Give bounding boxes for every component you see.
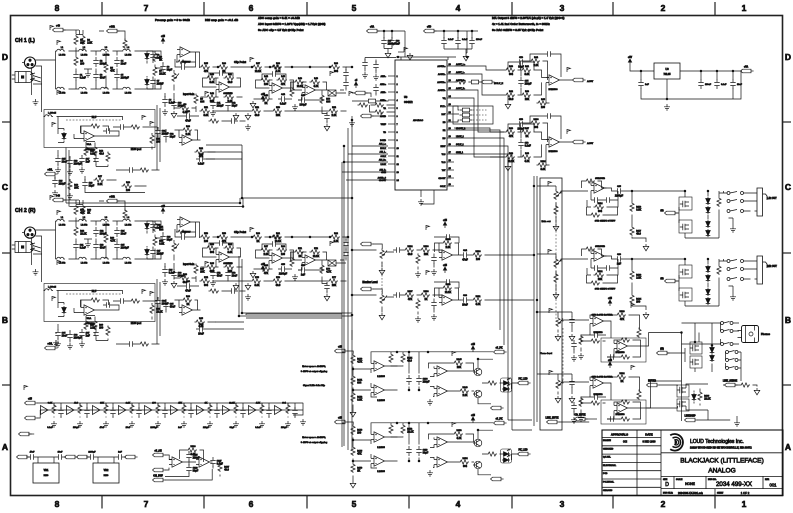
- resistor R106: [472, 251, 483, 261]
- svg-text:So DAC 0dBFS = 3.35 Vpk @Clip: So DAC 0dBFS = 3.35 Vpk @Clip Point: [492, 28, 543, 32]
- op-amp U14: [179, 305, 196, 315]
- capacitor C115: [162, 407, 167, 417]
- power flag +15: [471, 415, 476, 423]
- diode D2: [145, 78, 150, 86]
- svg-text:33pF: 33pF: [170, 135, 176, 138]
- svg-text:1: 1: [742, 3, 747, 13]
- svg-text:2.2K: 2.2K: [445, 246, 450, 249]
- svg-text:22.1K: 22.1K: [445, 291, 452, 294]
- resistor R131: [620, 355, 631, 359]
- ground (analog): [569, 396, 575, 403]
- capacitor C58: [228, 288, 238, 293]
- resistor R13: [130, 125, 141, 129]
- svg-text:CS4272: CS4272: [404, 101, 413, 104]
- junction: [536, 299, 538, 301]
- capacitor C25: [114, 241, 129, 251]
- resistor R16: [68, 180, 79, 191]
- svg-text:+5A: +5A: [744, 66, 749, 69]
- transistor Q20: [473, 461, 482, 469]
- svg-text:R37: R37: [256, 63, 261, 65]
- ground (analog): [555, 396, 561, 403]
- svg-text:8 DEC 2009: 8 DEC 2009: [642, 440, 656, 443]
- svg-text:2200pF: 2200pF: [121, 246, 130, 249]
- junction: [352, 368, 354, 370]
- capacitor C116: [188, 407, 193, 417]
- connector J33: [518, 379, 531, 385]
- transistor Q10: [690, 345, 699, 351]
- svg-text:10K: 10K: [457, 366, 462, 369]
- resistor R124: [630, 294, 642, 305]
- capacitor C9: [162, 96, 175, 106]
- ground: [292, 274, 298, 280]
- wire: [254, 74, 294, 100]
- junction: [343, 145, 345, 147]
- svg-text:REG: REG: [104, 475, 109, 477]
- svg-text:L2: L2: [83, 217, 86, 219]
- junction: [352, 460, 354, 462]
- svg-text:So ADC clip = 4.5 Vpk @Clip Po: So ADC clip = 4.5 Vpk @Clip Point: [258, 28, 304, 32]
- svg-text:0.1uF: 0.1uF: [280, 103, 287, 106]
- ground (analog): [379, 268, 385, 275]
- ground: [362, 72, 368, 78]
- resistor R1: [74, 35, 85, 46]
- svg-text:1uF: 1uF: [396, 42, 401, 45]
- svg-text:SIZE: SIZE: [663, 479, 668, 481]
- capacitor C98: [614, 254, 624, 265]
- svg-text:SUB/SUB: SUB/SUB: [595, 178, 605, 180]
- XLR connector J1: [22, 57, 36, 68]
- wire: [454, 81, 469, 83]
- svg-text:C55: C55: [281, 264, 286, 266]
- svg-text:R/R OUT: R/R OUT: [767, 265, 777, 268]
- wire: [200, 66, 347, 68]
- connector J49: [19, 432, 32, 436]
- svg-text:LINE/AMP: LINE/AMP: [685, 415, 696, 418]
- wire: [113, 300, 158, 302]
- resistor R84: [150, 304, 163, 315]
- resistor R57: [177, 230, 188, 234]
- resistor R11: [84, 146, 96, 157]
- wire: [201, 243, 243, 282]
- svg-text:MCLK: MCLK: [380, 148, 386, 150]
- wire: [165, 93, 199, 116]
- capacitor C5: [114, 71, 129, 81]
- op-amp U16: [546, 137, 563, 147]
- svg-text:2200pF: 2200pF: [74, 336, 83, 339]
- wire: [99, 31, 125, 41]
- svg-text:49.9: 49.9: [407, 359, 412, 362]
- wire: [322, 277, 327, 294]
- wire: [76, 200, 83, 221]
- svg-text:33pF: 33pF: [232, 104, 238, 107]
- junction: [694, 341, 696, 343]
- svg-text:22.1K: 22.1K: [313, 255, 320, 258]
- inductor L10: [56, 217, 66, 227]
- resistor R9: [194, 94, 205, 105]
- connector J8: [53, 195, 66, 202]
- svg-text:+5_AN: +5_AN: [154, 450, 162, 453]
- wire: [454, 98, 504, 157]
- test point TP1: [50, 25, 53, 30]
- IC U3 right pin names: [437, 65, 446, 188]
- svg-text:4: 4: [456, 499, 461, 509]
- wire: [37, 403, 303, 418]
- resistor R14: [139, 168, 150, 172]
- wire: [377, 351, 493, 353]
- svg-text:5: 5: [352, 3, 357, 13]
- svg-text:+5_PK: +5_PK: [495, 419, 502, 421]
- ground: [33, 99, 39, 105]
- resistor R118: [717, 197, 721, 208]
- svg-text:DATE: DATE: [645, 432, 653, 436]
- resistor R155: [487, 452, 498, 456]
- wire: [116, 169, 160, 171]
- connector J25: [657, 349, 670, 355]
- connector J46: [153, 450, 166, 457]
- svg-text:CD_MUTE: CD_MUTE: [574, 415, 586, 417]
- wire: [246, 314, 342, 318]
- wire: [200, 110, 347, 112]
- svg-text:7: 7: [144, 3, 149, 13]
- svg-text:SCLK_1: SCLK_1: [456, 144, 465, 146]
- ground: [259, 421, 265, 427]
- capacitor C63: [196, 154, 206, 165]
- block DAC filter A: [490, 51, 594, 109]
- junction: [291, 66, 293, 68]
- svg-text:TST: TST: [442, 170, 447, 172]
- svg-text:3: 3: [560, 3, 565, 13]
- svg-text:2.2K: 2.2K: [87, 41, 92, 44]
- wire: [537, 374, 589, 395]
- wire: [490, 54, 573, 103]
- XLR connector J6: [22, 227, 36, 238]
- wire: [175, 130, 201, 140]
- title block frame: [602, 430, 783, 496]
- svg-text:POLITICAL: POLITICAL: [603, 481, 615, 484]
- capacitor C31: [183, 281, 193, 292]
- svg-text:+48R: +48R: [109, 26, 115, 29]
- svg-text:R82: R82: [199, 148, 204, 150]
- junction: [457, 30, 459, 32]
- connector J21: [665, 211, 678, 215]
- capacitor C49: [343, 79, 348, 89]
- resistor R101: [537, 161, 548, 171]
- wire: [729, 218, 734, 226]
- resistor R161: [182, 404, 186, 415]
- connector J3: [53, 25, 66, 32]
- svg-text:47uF: 47uF: [100, 246, 106, 249]
- cell wires: [184, 403, 191, 418]
- svg-text:1uF: 1uF: [86, 334, 91, 337]
- svg-text:B: B: [785, 315, 791, 325]
- ground: [233, 421, 239, 427]
- resistor R29: [84, 320, 96, 331]
- wire: [56, 88, 148, 90]
- transistor Q8: [680, 292, 689, 298]
- svg-text:LR Filt: LR Filt: [125, 92, 132, 95]
- svg-text:10uF: 10uF: [62, 160, 68, 163]
- jack contact: [30, 243, 35, 250]
- wire: [507, 95, 509, 102]
- op-amp U6: [302, 85, 319, 95]
- junction: [707, 190, 709, 192]
- resistor R71: [294, 248, 305, 258]
- resistor R70: [290, 257, 294, 268]
- resistor R20: [81, 205, 92, 216]
- analog switch U12: [328, 260, 336, 266]
- svg-text:10uF: 10uF: [126, 427, 132, 429]
- svg-text:R103: R103: [424, 246, 430, 248]
- resistor R100: [530, 119, 541, 129]
- resistor R135: [579, 397, 583, 408]
- op-amp U25: [371, 361, 388, 371]
- connector J47: [153, 468, 166, 472]
- resistor R150: [351, 463, 363, 474]
- wire: [342, 146, 388, 180]
- svg-text:AOUT: AOUT: [587, 80, 594, 83]
- wire: [507, 157, 509, 164]
- wire: [155, 232, 163, 245]
- svg-text:49.9: 49.9: [509, 98, 514, 101]
- wire: [28, 433, 34, 435]
- capacitor C16: [67, 157, 82, 167]
- block DAC filter B: [490, 113, 594, 171]
- svg-text:Meter span = -20dBFS,: Meter span = -20dBFS,: [302, 365, 326, 368]
- resistor R134: [590, 401, 601, 405]
- svg-text:R48: R48: [298, 77, 303, 80]
- capacitor C106: [607, 416, 617, 421]
- resistor R148: [351, 425, 363, 436]
- svg-text:VR1: VR1: [44, 469, 49, 472]
- resistor R151: [389, 424, 393, 435]
- contact K11: [726, 359, 729, 362]
- resistor R166: [187, 446, 198, 456]
- block 5V regulator: [628, 57, 680, 79]
- svg-text:L3: L3: [105, 217, 108, 219]
- connector J38: [491, 477, 504, 481]
- op-amp U24: [614, 403, 631, 413]
- resistor R92: [505, 91, 516, 101]
- svg-text:2200pF: 2200pF: [88, 452, 96, 454]
- svg-text:R17: R17: [98, 176, 103, 178]
- wire: [157, 279, 160, 344]
- svg-text:R85: R85: [199, 318, 204, 320]
- fet box Q15: [677, 385, 689, 397]
- svg-text:49.9: 49.9: [276, 284, 281, 287]
- svg-text:10uF: 10uF: [462, 304, 468, 307]
- op-amp U17: [439, 250, 456, 260]
- capacitor C6: [150, 51, 161, 61]
- wire: [58, 150, 82, 169]
- svg-text:R145: R145: [457, 358, 463, 361]
- op-amp U20: [591, 251, 608, 261]
- resistor R5: [104, 63, 115, 74]
- resistor R65: [206, 263, 217, 273]
- svg-text:8: 8: [397, 132, 399, 134]
- capacitor C2: [93, 57, 107, 67]
- svg-text:R38: R38: [276, 63, 281, 65]
- svg-text:LINE_MUTE: LINE_MUTE: [545, 418, 558, 420]
- connector J44: [77, 455, 90, 459]
- resistor R144: [401, 353, 413, 364]
- svg-text:Phones: Phones: [761, 333, 771, 336]
- diode D11: [706, 265, 711, 273]
- svg-text:SHEET: SHEET: [717, 493, 724, 495]
- diode D16: [710, 354, 715, 362]
- wire: [56, 50, 148, 52]
- ground (analog): [379, 313, 385, 320]
- svg-text:11: 11: [397, 156, 400, 158]
- ground (analog): [171, 111, 177, 118]
- resistor R128: [590, 339, 601, 343]
- inductor L17: [122, 257, 132, 264]
- svg-text:R100: R100: [534, 119, 540, 121]
- resistor R46: [260, 94, 271, 105]
- resistor R37: [252, 63, 263, 73]
- capacitor C96: [591, 265, 601, 270]
- svg-text:LR Filt: LR Filt: [103, 262, 110, 265]
- svg-text:3.3K: 3.3K: [540, 168, 545, 171]
- inductor L6: [78, 87, 88, 94]
- svg-text:LR Filt: LR Filt: [81, 92, 88, 95]
- resistor R15: [106, 152, 110, 163]
- svg-text:10: 10: [397, 148, 400, 150]
- svg-text:49.9: 49.9: [408, 253, 413, 256]
- phones jack J26: [738, 326, 771, 343]
- svg-text:D: D: [665, 482, 669, 488]
- diode D7: [706, 197, 711, 205]
- resistor R162: [208, 404, 212, 415]
- block meter driver 1: [335, 344, 531, 417]
- cell wires: [80, 403, 87, 418]
- svg-text:100: 100: [264, 83, 269, 86]
- wire: [352, 85, 395, 117]
- junction: [631, 190, 633, 192]
- svg-text:VD: VD: [383, 132, 386, 134]
- test point TP27: [549, 308, 552, 313]
- svg-text:33pF: 33pF: [423, 451, 429, 454]
- svg-text:33pF: 33pF: [518, 66, 524, 69]
- svg-text:M1: M1: [443, 130, 447, 132]
- svg-text:NJM4556: NJM4556: [593, 331, 603, 334]
- svg-text:8: 8: [55, 3, 60, 13]
- wire: [195, 322, 216, 329]
- resistor R44: [260, 75, 271, 86]
- svg-text:R111: R111: [476, 296, 482, 298]
- svg-text:22.1K: 22.1K: [156, 310, 163, 313]
- junction: [347, 236, 349, 238]
- svg-text:10uF: 10uF: [121, 62, 127, 65]
- svg-text:22.1K: 22.1K: [159, 72, 166, 75]
- svg-text:+48: +48: [56, 25, 61, 28]
- wire: [377, 31, 405, 57]
- junction: [408, 351, 410, 353]
- ground (analog): [350, 410, 356, 417]
- TRS jack J2: [12, 72, 41, 83]
- buffer U41: [249, 406, 257, 415]
- svg-text:3.3K: 3.3K: [254, 284, 259, 287]
- svg-text:RLF: RLF: [92, 291, 97, 293]
- svg-text:3: 3: [397, 92, 399, 94]
- contact K1: [727, 192, 730, 195]
- svg-text:1K: 1K: [87, 211, 90, 214]
- wire: [560, 249, 607, 268]
- svg-text:100: 100: [541, 106, 546, 109]
- capacitor C73: [373, 61, 378, 71]
- svg-text:R39: R39: [334, 63, 339, 65]
- wire: [201, 73, 243, 112]
- svg-text:47uF: 47uF: [185, 120, 191, 123]
- capacitor C12: [103, 128, 113, 133]
- connector J31: [335, 347, 348, 353]
- test point TP15: [250, 227, 253, 232]
- resistor R127: [637, 328, 641, 339]
- junction: [418, 460, 420, 462]
- svg-text:C76: C76: [519, 57, 524, 59]
- junction: [238, 315, 240, 317]
- cell wires: [262, 403, 269, 418]
- svg-text:220pF: 220pF: [157, 252, 164, 255]
- LED D19: [502, 449, 511, 457]
- long wires ch2 to bus: [215, 322, 244, 329]
- wire: [165, 450, 220, 480]
- buffer U39: [197, 406, 205, 415]
- svg-text:DGND: DGND: [380, 140, 386, 142]
- resistor R130: [620, 338, 631, 342]
- test point TP23: [426, 225, 429, 230]
- test point TP33: [24, 385, 27, 390]
- junction: [383, 30, 385, 32]
- wire: [559, 421, 589, 423]
- resistor R41: [224, 73, 235, 84]
- capacitor C87: [443, 279, 453, 284]
- svg-text:4.7K: 4.7K: [110, 239, 115, 242]
- svg-text:6: 6: [249, 3, 254, 13]
- capacitor C8: [160, 63, 172, 73]
- resistor R45: [277, 75, 288, 86]
- svg-text:2200pF: 2200pF: [121, 76, 130, 79]
- capacitor C122: [55, 454, 65, 459]
- volume gang dashed link 2: [556, 202, 563, 383]
- svg-text:NJM2122: NJM2122: [85, 323, 95, 325]
- svg-text:MUTE2: MUTE2: [648, 381, 657, 383]
- capacitor C17: [79, 155, 90, 165]
- svg-text:+5V: +5V: [628, 57, 633, 59]
- test point TP17: [150, 121, 153, 126]
- op-amp U23: [590, 378, 607, 388]
- capacitor C42: [225, 99, 237, 109]
- capacitor C62: [163, 130, 175, 140]
- resistor R121: [594, 271, 605, 281]
- wire: [31, 230, 56, 282]
- contact K6: [727, 278, 730, 281]
- wire: [434, 31, 478, 54]
- junction: [408, 389, 410, 391]
- ground (analog): [463, 54, 469, 61]
- op-amp U2: [81, 305, 98, 320]
- svg-text:12: 12: [397, 164, 400, 166]
- op-amp U15: [546, 75, 563, 85]
- test point TP18: [150, 291, 153, 296]
- op-amp U43: [169, 457, 186, 467]
- ground (analog): [385, 51, 391, 58]
- wire: [154, 51, 156, 89]
- wire: [607, 340, 647, 357]
- test point TP24: [426, 270, 429, 275]
- ground: [55, 341, 61, 347]
- connector J10: [45, 343, 58, 350]
- jumper dashed: [473, 110, 487, 120]
